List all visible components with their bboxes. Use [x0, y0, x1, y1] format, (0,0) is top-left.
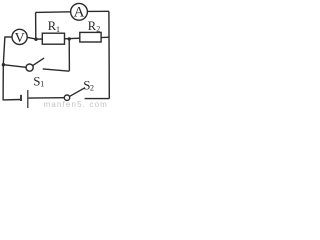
- svg-text:V: V: [15, 31, 25, 46]
- label S2: [83, 77, 94, 92]
- battery cell positive long plate: [27, 90, 29, 108]
- label R1: [48, 19, 60, 34]
- node junction dot at V/branch: [34, 38, 37, 41]
- switch S2 pivot circle: [64, 95, 69, 100]
- svg-text:1: 1: [40, 80, 44, 89]
- svg-text:1: 1: [56, 25, 60, 34]
- wire S2 branch vertical drop: [68, 39, 70, 71]
- switch S1 lever: [33, 58, 44, 66]
- resistor R2: [80, 32, 101, 42]
- label S1: [33, 73, 44, 88]
- battery cell negative short plate: [20, 95, 22, 101]
- wire voltmeter right lead: [27, 37, 36, 39]
- wire voltmeter left lead: [5, 36, 12, 38]
- wire bottom rail right: [85, 98, 110, 100]
- wire battery to S2: [28, 97, 64, 99]
- svg-text:manfen5. com: manfen5. com: [44, 100, 109, 109]
- wire bottom rail left: [3, 99, 20, 101]
- switch S2 lever: [70, 88, 85, 97]
- wire left rail vertical: [3, 36, 5, 100]
- wire middle rail to R1: [36, 38, 42, 40]
- resistor R1: [42, 33, 64, 44]
- label R2: [88, 19, 101, 33]
- node junction dot at S2 tee: [68, 37, 71, 40]
- svg-text:2: 2: [90, 84, 94, 93]
- node junction dot at S1 tee: [2, 63, 5, 66]
- wire right rail vertical: [108, 11, 110, 98]
- svg-text:A: A: [74, 5, 85, 21]
- wire S2 branch horizontal to S1 contact: [43, 69, 70, 71]
- switch S1 pivot circle: [26, 64, 33, 71]
- wire S1 feed from left rail: [3, 65, 26, 68]
- wire top rail right segment: [88, 10, 109, 12]
- wire top rail left segment: [36, 11, 71, 14]
- wire R2 to right rail: [101, 36, 109, 38]
- svg-text:2: 2: [96, 24, 100, 33]
- wire R1 to R2: [65, 37, 80, 40]
- wire left branch vertical (top rail to middle rail): [35, 12, 37, 39]
- ammeter A1: [71, 3, 88, 20]
- voltmeter V1: [12, 29, 27, 45]
